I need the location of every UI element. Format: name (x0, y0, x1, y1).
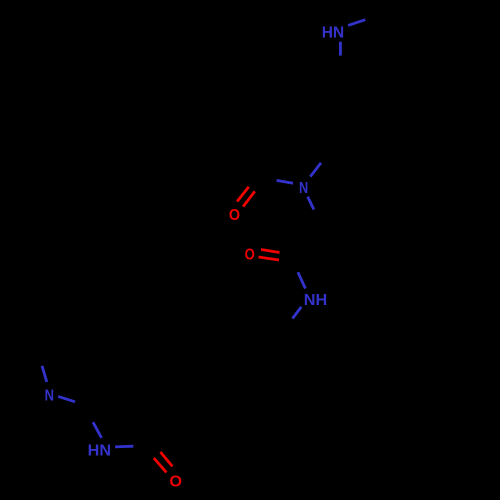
bond stub N4 up (42, 366, 47, 382)
svg-text:HN: HN (322, 24, 344, 41)
svg-text:HN: HN (88, 442, 111, 459)
bond stub N2 left (277, 180, 293, 183)
svg-text:O: O (169, 473, 182, 490)
double bond C=O3 line b (160, 452, 172, 466)
bond stub N5 right (115, 445, 133, 448)
bond stub N2 up-right (310, 163, 321, 177)
svg-text:O: O (245, 247, 255, 264)
double bond C=O2 line a (261, 250, 280, 253)
double bond C=O3 line a (154, 458, 167, 472)
svg-text:NH: NH (304, 292, 327, 309)
svg-text:N: N (299, 180, 308, 197)
bond stub N1 up-right (348, 20, 365, 26)
bond stub N3 down-left (293, 307, 302, 319)
bond stub N4 right (58, 396, 75, 401)
svg-text:N: N (45, 388, 54, 405)
bond stub N1 down (339, 42, 342, 56)
double bond C=O1 line b (243, 191, 255, 206)
double bond C=O1 line a (237, 187, 249, 202)
bond stub N5 up (93, 422, 102, 438)
svg-text:O: O (229, 207, 240, 224)
bond stub N3 up (298, 272, 306, 288)
bond stub N2 down (308, 197, 314, 210)
double bond C=O2 line b (259, 257, 280, 260)
